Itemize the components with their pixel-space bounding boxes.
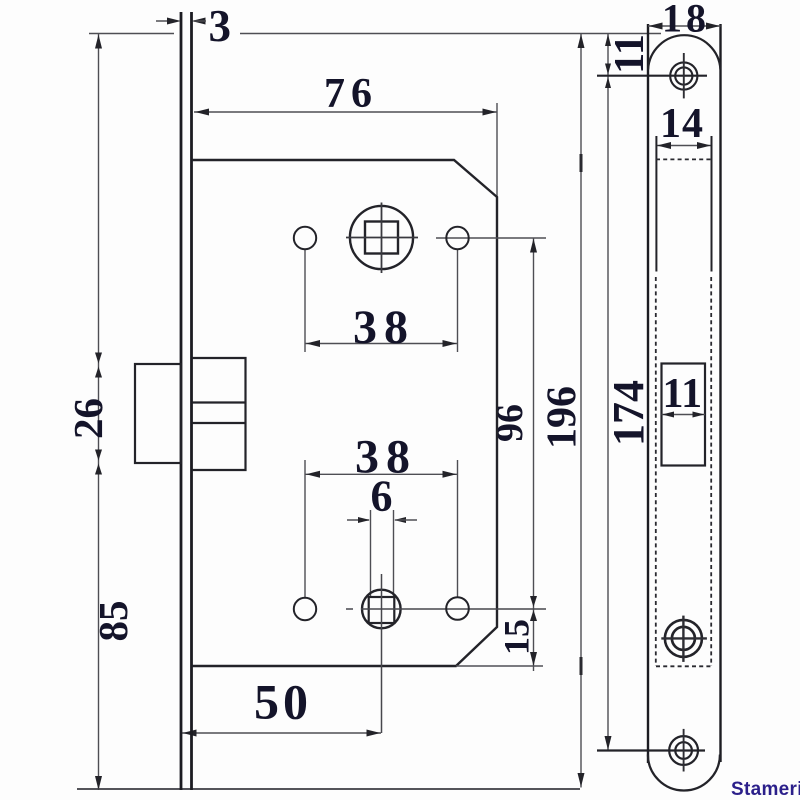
dim 38 upper — [304, 249, 306, 352]
dim 96 line — [533, 238, 535, 609]
lock body outline — [193, 160, 498, 666]
pocket solid edges — [655, 136, 657, 272]
latch front box — [135, 364, 181, 463]
dim 50 — [182, 732, 381, 734]
dim 6 — [370, 510, 372, 597]
dim 15 line — [533, 609, 535, 672]
svg-text:50: 50 — [254, 674, 312, 730]
svg-text:3: 3 — [209, 1, 232, 51]
upper guide holes — [294, 227, 316, 249]
body bottom extension — [456, 665, 543, 667]
dim 38 lower — [304, 460, 306, 597]
left dimension chain line — [98, 34, 100, 790]
svg-text:96: 96 — [489, 404, 531, 442]
svg-text:Stameris: Stameris — [731, 779, 800, 800]
top extension line — [89, 33, 174, 35]
svg-text:14: 14 — [660, 101, 704, 147]
svg-text:18: 18 — [662, 0, 710, 41]
svg-text:11: 11 — [663, 371, 703, 417]
dim 18 — [648, 25, 721, 27]
svg-text:196: 196 — [540, 386, 586, 449]
svg-text:38: 38 — [353, 301, 415, 354]
screw hole centre ref lines (thick) — [597, 75, 707, 77]
top screw hole — [670, 62, 697, 89]
svg-text:174: 174 — [604, 380, 653, 446]
dim 196 line — [580, 34, 582, 788]
dim 11 latch — [662, 414, 706, 416]
bottom extension line — [77, 788, 580, 790]
svg-text:15: 15 — [497, 619, 537, 655]
latch inner box — [193, 358, 246, 470]
faceplate side (two vertical lines) — [180, 12, 183, 790]
svg-text:85: 85 — [90, 601, 136, 642]
lower hub — [362, 590, 401, 629]
svg-text:6: 6 — [371, 472, 393, 521]
dim 174 / 11 line — [607, 34, 609, 751]
lower guide holes — [294, 598, 316, 620]
upper hub — [350, 206, 413, 269]
svg-text:76: 76 — [324, 71, 378, 117]
middle screw hole — [665, 620, 702, 657]
svg-text:11: 11 — [607, 34, 653, 74]
dim 14 — [656, 145, 711, 147]
pocket hidden (dashed) outline — [656, 158, 712, 160]
bottom screw hole — [669, 736, 698, 765]
faceplate outline — [647, 24, 649, 763]
dim 3 (plate thickness) — [156, 20, 177, 22]
svg-text:26: 26 — [65, 398, 111, 439]
latch hole rect — [662, 364, 706, 466]
dim 76 — [194, 111, 497, 113]
